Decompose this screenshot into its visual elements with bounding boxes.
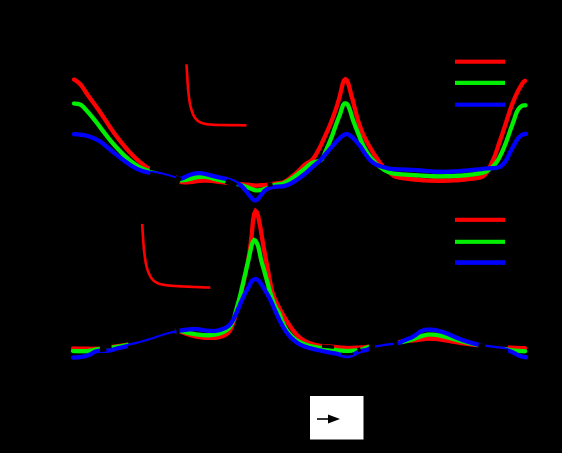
top panel green curve [74,103,526,190]
bottom panel green curve [73,240,525,351]
bottom legend red line [455,218,505,222]
top legend green line [455,81,505,85]
bottom legend blue line [455,260,505,265]
black overlay curve segments (invisible series erasing colour) [150,174,177,181]
white annotation box [310,396,364,440]
top panel red curve [74,79,525,185]
bottom panel blue curve [73,279,526,357]
bottom panel red curve [73,211,525,349]
bottom panel inset red curve [142,224,210,288]
top legend blue line [455,103,505,107]
bottom legend green line [455,240,505,244]
top panel inset red curve [187,64,247,125]
black arrow inside box [317,418,331,420]
top legend red line [455,60,505,64]
top panel blue curve [74,134,526,201]
